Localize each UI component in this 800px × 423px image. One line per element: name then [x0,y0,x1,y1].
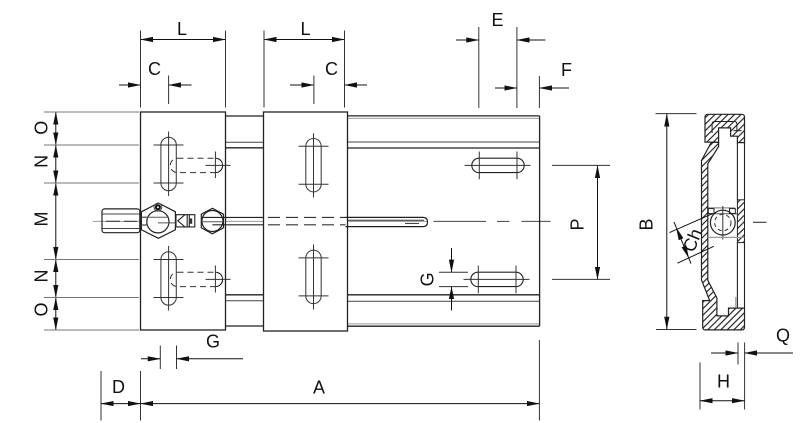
dim H [700,363,745,410]
plate 2 [264,112,348,331]
svg-text:D: D [112,377,125,397]
svg-text:O: O [32,121,52,135]
shaft knob->hex1 [140,217,176,225]
svg-text:N: N [32,270,52,283]
svg-text:N: N [32,155,52,168]
svg-text:C: C [148,59,161,79]
bearing [708,206,745,308]
svg-text:E: E [491,10,503,30]
svg-text:L: L [177,19,187,39]
connector stud [176,215,195,227]
svg-text:B: B [637,218,657,230]
center line (axis) [93,220,551,222]
threaded rod right [346,217,428,226]
left wall + bottom block [702,142,745,330]
hidden rail slot (dashed) in plate1 top [170,152,230,179]
dim C1 [119,84,141,86]
dim L2 [264,39,345,41]
dim A [538,340,540,421]
rail right segment [348,116,540,326]
svg-text:F: F [561,60,572,80]
rail slot upper right [465,152,531,180]
dim G left (rail lower slot height) [439,271,468,273]
svg-text:G: G [206,332,220,352]
center line dash right of section [753,221,767,223]
dim C2 [290,84,314,86]
svg-text:P: P [568,218,588,230]
dim Q [711,343,793,410]
knob [102,209,140,233]
plate 2 slot top [299,133,329,197]
svg-text:Q: Q [776,326,790,346]
svg-text:M: M [32,212,52,227]
plate 1 [141,112,226,330]
rail slot lower right [464,266,530,294]
svg-text:H: H [717,372,730,392]
svg-text:G: G [418,272,438,286]
dashed shaft behind plate2 [268,217,346,224]
dim L1 [141,39,226,41]
right wall plain segments [737,143,744,309]
dim Ch [670,214,714,264]
dim F [495,87,517,89]
dim P [552,164,610,166]
hidden rail slot (dashed) in plate1 bottom [170,266,230,293]
dim D [100,371,102,421]
plate 1 slot top [154,132,184,197]
plate 1 slot bottom [154,246,184,311]
hex nut 1 (large) [141,203,175,238]
rail right edge [539,116,541,326]
svg-text:A: A [313,377,325,397]
inner contour top block [712,122,737,134]
right wall middle hatched segment [737,200,744,243]
svg-text:O: O [32,302,52,316]
dim B [656,114,697,330]
plate 2 slot bottom [299,245,329,310]
top block [705,114,745,142]
svg-text:L: L [300,19,310,39]
left chain dims [55,112,57,145]
rail segment between plates [226,116,264,326]
dim G bottom (plate slot width) [159,346,161,370]
dim E [456,39,479,41]
svg-text:C: C [325,59,338,79]
shaft right of hex2 [202,217,264,224]
hex nut 2 [201,208,223,234]
